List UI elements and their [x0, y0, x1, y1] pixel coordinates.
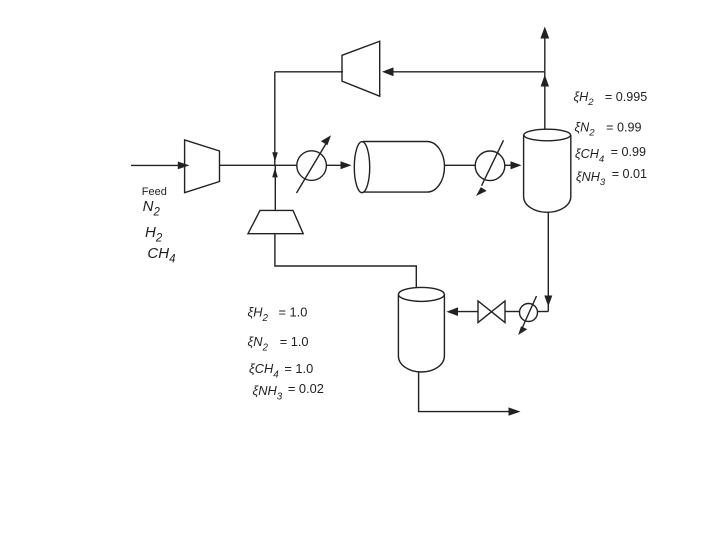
separator V1 (high pressure separator vessel) — [524, 129, 571, 212]
wire K3 outlet left and down to mixing junction — [275, 71, 343, 73]
wire top junction to recycle compressor K3, arrowhead left into K3 — [382, 67, 545, 76]
svg-text:= 1.0: = 1.0 — [284, 361, 313, 376]
compressor K1 (feed compressor) — [185, 140, 220, 193]
svg-text:= 1.0: = 1.0 — [279, 305, 308, 320]
svg-text:= 0.995: = 0.995 — [605, 90, 647, 104]
recycle compressor K3 (top) — [342, 41, 380, 96]
arrow E1 to reactor — [326, 161, 351, 169]
heat exchanger E2 (cooler) — [475, 140, 505, 196]
heat exchanger E1 (preheater) — [297, 135, 332, 193]
purge stream arrow (out the top) — [540, 27, 549, 72]
wire K1 outlet to mixing junction to exchanger E1 — [220, 164, 297, 166]
svg-text:= 0.99: = 0.99 — [611, 145, 646, 159]
wire reactor to exchanger E2 — [445, 164, 476, 166]
recycle return wire from top (down into mixing junction), arrowhead down — [272, 72, 278, 166]
svg-text:= 0.02: = 0.02 — [288, 381, 324, 396]
heat exchanger E3 (letdown cooler) — [518, 296, 537, 335]
svg-text:= 1.0: = 1.0 — [280, 334, 309, 349]
svg-text:= 0.99: = 0.99 — [606, 121, 641, 135]
wire from flash drum top to K2 inlet — [275, 234, 416, 288]
flash drum V2 (low pressure separator) — [398, 287, 444, 372]
svg-text:= 0.01: = 0.01 — [612, 167, 647, 181]
purge / vapor wire up from V1 with arrowhead into top junction — [541, 72, 549, 130]
letdown valve — [478, 301, 505, 323]
wire V1 bottom down, arrowhead down, then corner left — [446, 212, 552, 316]
feed stream arrow — [131, 162, 190, 170]
reactor R1 (horizontal vessel) — [354, 142, 444, 193]
recycle compressor K2 (vertical, flow upward) — [248, 210, 303, 233]
wire from recycle compressor K2 up into mixing junction, arrowhead up — [272, 165, 278, 210]
svg-text:Feed: Feed — [142, 186, 167, 198]
arrow E2 to separator V1 — [505, 161, 522, 169]
liquid product wire and arrow — [419, 372, 521, 416]
